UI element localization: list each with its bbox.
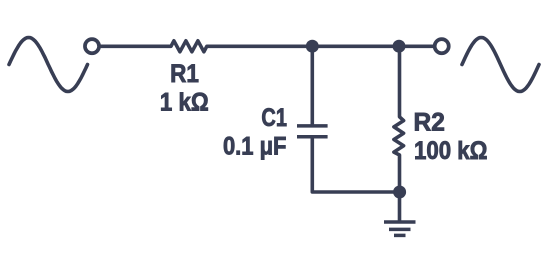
- svg-text:100 kΩ: 100 kΩ: [414, 138, 488, 165]
- svg-text:R2: R2: [414, 109, 445, 136]
- svg-text:R1: R1: [170, 60, 199, 88]
- svg-text:C1: C1: [261, 104, 287, 132]
- svg-text:0.1 μF: 0.1 μF: [223, 132, 287, 160]
- svg-text:1 kΩ: 1 kΩ: [160, 90, 209, 117]
